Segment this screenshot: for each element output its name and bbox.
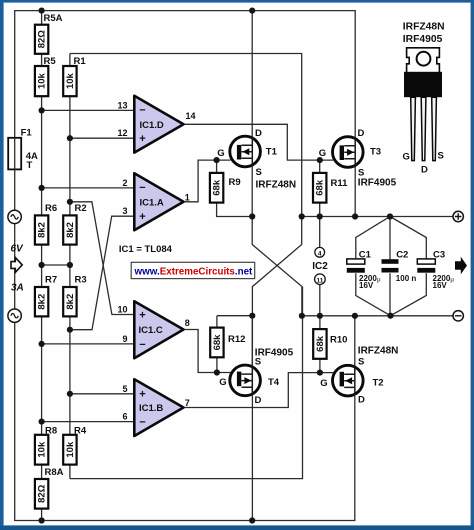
svg-text:9: 9 bbox=[122, 334, 127, 344]
svg-text:IRFZ48N: IRFZ48N bbox=[256, 180, 297, 191]
svg-text:10: 10 bbox=[117, 305, 127, 315]
svg-text:R5: R5 bbox=[44, 56, 57, 67]
svg-text:+: + bbox=[139, 388, 145, 400]
svg-text:14: 14 bbox=[186, 111, 196, 121]
svg-text:G: G bbox=[217, 148, 224, 159]
svg-text:S: S bbox=[438, 151, 444, 162]
svg-text:R10: R10 bbox=[330, 334, 347, 345]
svg-text:82Ω: 82Ω bbox=[37, 484, 48, 503]
svg-text:IC1.D: IC1.D bbox=[140, 120, 164, 131]
svg-text:68k: 68k bbox=[315, 335, 326, 352]
svg-text:IRF4905: IRF4905 bbox=[358, 178, 397, 189]
svg-text:8k2: 8k2 bbox=[37, 222, 48, 238]
svg-text:+: + bbox=[139, 133, 145, 145]
svg-text:R3: R3 bbox=[75, 275, 87, 286]
svg-text:C1: C1 bbox=[359, 250, 372, 261]
svg-text:12: 12 bbox=[117, 128, 127, 138]
svg-text:8k2: 8k2 bbox=[65, 294, 76, 310]
svg-text:8: 8 bbox=[185, 318, 190, 328]
svg-text:R9: R9 bbox=[229, 177, 241, 188]
svg-text:13: 13 bbox=[117, 100, 127, 110]
svg-text:8k2: 8k2 bbox=[65, 222, 76, 238]
svg-text:D: D bbox=[255, 128, 262, 139]
svg-text:IRFZ48N: IRFZ48N bbox=[358, 346, 399, 357]
svg-text:T1: T1 bbox=[266, 147, 278, 158]
svg-text:R1: R1 bbox=[74, 56, 87, 67]
svg-text:D: D bbox=[358, 128, 365, 139]
svg-text:2: 2 bbox=[122, 178, 127, 188]
svg-text:T3: T3 bbox=[370, 147, 381, 158]
svg-text:68k: 68k bbox=[212, 179, 223, 196]
svg-text:www.ExtremeCircuits.net: www.ExtremeCircuits.net bbox=[134, 266, 254, 277]
svg-text:IC1.C: IC1.C bbox=[139, 325, 163, 336]
svg-text:T2: T2 bbox=[373, 378, 384, 389]
svg-text:R2: R2 bbox=[75, 203, 87, 214]
svg-text:G: G bbox=[320, 378, 327, 389]
svg-text:1: 1 bbox=[185, 193, 190, 203]
svg-text:7: 7 bbox=[185, 398, 190, 408]
svg-text:C2: C2 bbox=[396, 250, 408, 261]
svg-text:IC1 = TL084: IC1 = TL084 bbox=[119, 244, 173, 255]
svg-text:−: − bbox=[139, 417, 145, 429]
svg-text:IC1.B: IC1.B bbox=[139, 403, 163, 414]
svg-text:IRF4905: IRF4905 bbox=[255, 348, 294, 359]
svg-text:68k: 68k bbox=[315, 179, 326, 196]
svg-text:G: G bbox=[219, 377, 226, 388]
svg-text:11: 11 bbox=[316, 278, 323, 285]
svg-text:82Ω: 82Ω bbox=[37, 30, 48, 49]
svg-text:3A: 3A bbox=[11, 283, 24, 294]
svg-text:D: D bbox=[255, 395, 262, 406]
svg-text:−: − bbox=[139, 339, 145, 351]
svg-text:−: − bbox=[139, 105, 145, 117]
svg-text:8k2: 8k2 bbox=[37, 294, 48, 310]
svg-text:F1: F1 bbox=[21, 128, 33, 139]
svg-text:R7: R7 bbox=[45, 275, 57, 286]
svg-text:10k: 10k bbox=[37, 441, 48, 458]
svg-text:−: − bbox=[139, 182, 145, 194]
svg-text:6: 6 bbox=[122, 412, 127, 422]
svg-text:G: G bbox=[319, 148, 326, 159]
svg-text:R5A: R5A bbox=[44, 13, 63, 24]
svg-text:5: 5 bbox=[122, 384, 127, 394]
svg-text:16V: 16V bbox=[359, 281, 374, 290]
svg-text:IC1.A: IC1.A bbox=[140, 198, 164, 209]
svg-text:10k: 10k bbox=[65, 441, 76, 458]
svg-text:3: 3 bbox=[122, 206, 127, 216]
svg-text:D: D bbox=[358, 395, 365, 406]
svg-text:10k: 10k bbox=[65, 72, 76, 89]
svg-text:T: T bbox=[27, 160, 33, 171]
svg-text:R4: R4 bbox=[74, 426, 87, 437]
svg-text:10k: 10k bbox=[37, 72, 48, 89]
svg-text:D: D bbox=[421, 165, 428, 176]
svg-text:R8: R8 bbox=[45, 426, 57, 437]
svg-text:+: + bbox=[139, 211, 145, 223]
svg-text:S: S bbox=[256, 167, 262, 178]
svg-text:R11: R11 bbox=[331, 178, 349, 189]
svg-text:IRF4905: IRF4905 bbox=[403, 34, 443, 45]
svg-text:16V: 16V bbox=[433, 281, 448, 290]
svg-text:4: 4 bbox=[318, 251, 322, 258]
svg-text:100 n: 100 n bbox=[396, 274, 417, 283]
svg-text:C3: C3 bbox=[433, 250, 445, 261]
svg-text:S: S bbox=[358, 357, 364, 368]
svg-text:IRFZ48N: IRFZ48N bbox=[403, 22, 445, 33]
svg-text:+: + bbox=[139, 310, 145, 322]
svg-text:IC2: IC2 bbox=[312, 261, 328, 272]
svg-text:R12: R12 bbox=[228, 334, 245, 345]
svg-text:G: G bbox=[403, 152, 410, 163]
svg-text:T4: T4 bbox=[268, 377, 280, 388]
svg-text:6V: 6V bbox=[11, 244, 25, 255]
svg-text:R8A: R8A bbox=[45, 467, 64, 478]
svg-text:R6: R6 bbox=[45, 203, 57, 214]
svg-text:68k: 68k bbox=[212, 334, 223, 351]
